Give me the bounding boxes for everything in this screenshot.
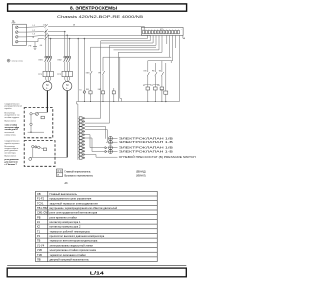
wire box2 bulb stub bbox=[30, 156, 33, 158]
ladder link dashes bbox=[145, 83, 159, 85]
svg-text:L3: L3 bbox=[33, 34, 36, 36]
svg-text:Т1: Т1 bbox=[37, 229, 41, 233]
wire box2 to sensor bbox=[40, 148, 43, 149]
wire drop B1 bbox=[64, 32, 66, 57]
thermal relay TR2 bbox=[62, 71, 72, 76]
svg-text:PE: PE bbox=[29, 46, 32, 48]
svg-text:К2: К2 bbox=[37, 225, 41, 229]
svg-text:внутренние термопредохранители: внутренние термопредохранители обмоток д… bbox=[50, 206, 118, 210]
svg-text:К1: К1 bbox=[79, 89, 81, 91]
dashed enclosure box 1 bbox=[24, 108, 53, 138]
svg-text:ЭЛЕКТРОКЛАПАН 1-В: ЭЛЕКТРОКЛАПАН 1-В bbox=[119, 141, 174, 144]
svg-text:Chassis 420/N2-BOP-RE 4000/N5: Chassis 420/N2-BOP-RE 4000/N5 bbox=[57, 15, 143, 19]
wire inside box1 top bbox=[39, 111, 48, 113]
XT1 terminals bbox=[143, 30, 180, 33]
wire KA2 to bus bbox=[154, 90, 156, 102]
wire run y57.2 bbox=[103, 56, 171, 58]
wire pass vertical p2 bbox=[85, 45, 110, 123]
defrost heater symbol box1 bbox=[41, 116, 44, 119]
svg-text:коробка: коробка bbox=[5, 108, 13, 110]
svg-text:РВ: РВ bbox=[37, 215, 41, 219]
footer box bbox=[7, 268, 186, 277]
svg-text:Главный переключатель: Главный переключатель bbox=[65, 171, 92, 174]
terminal circle box1 b bbox=[30, 123, 32, 125]
wire drop B3 bbox=[69, 39, 71, 57]
wire M2 lead down bbox=[66, 91, 68, 158]
node branch B tap 2 bbox=[67, 35, 68, 36]
bulb symbol box2 bbox=[29, 158, 32, 161]
svg-text:ОГНЕВОЙ ПРЕССОСТАТ (В) PRESSUR: ОГНЕВОЙ ПРЕССОСТАТ (В) PRESSURE SWITCH bbox=[119, 156, 196, 159]
mini legend box bbox=[57, 169, 63, 177]
svg-text:ЭЛЕКТРОКЛАПАН 1/В: ЭЛЕКТРОКЛАПАН 1/В bbox=[119, 147, 174, 150]
svg-text:контактор компрессора 1: контактор компрессора 1 bbox=[50, 220, 81, 224]
svg-text:термостат рабочей температуры: термостат рабочей температуры bbox=[50, 229, 90, 233]
coil KA1 rect bbox=[146, 87, 150, 90]
node v2 tap bbox=[84, 38, 85, 39]
svg-text:КМ1: КМ1 bbox=[39, 60, 44, 62]
coil KM1 rect bbox=[89, 91, 92, 94]
svg-text:У1-У4: У1-У4 bbox=[37, 243, 45, 247]
terminal circle box2 a bbox=[32, 145, 34, 147]
terminal column XT2 bus bbox=[77, 104, 79, 160]
node branch A tap 2 bbox=[48, 35, 49, 36]
coil KA3 rect bbox=[160, 87, 164, 90]
wire run y40.8 to strip bbox=[101, 40, 151, 42]
wire L2 bbox=[26, 31, 44, 33]
svg-text:реле времени оттайки: реле времени оттайки bbox=[50, 215, 78, 219]
XT2 stubs left bbox=[78, 118, 79, 158]
node box2 exit junction bbox=[55, 157, 56, 158]
wire row2 bbox=[48, 31, 65, 33]
wire strip drop x172.6 bbox=[171, 35, 172, 60]
svg-text:электроклапаны жидкостной лини: электроклапаны жидкостной линии bbox=[50, 243, 94, 247]
wire v2 coil feed bbox=[83, 39, 85, 91]
svg-text:(SB-M-Д): (SB-M-Д) bbox=[136, 172, 146, 174]
svg-text:Т1В: Т1В bbox=[37, 253, 42, 257]
svg-text:ТВ: ТВ bbox=[37, 239, 41, 243]
svg-text:К1: К1 bbox=[37, 220, 41, 224]
strip numbering band bbox=[143, 28, 182, 30]
wire drop A1 bbox=[45, 32, 47, 57]
svg-text:вентилятора: вентилятора bbox=[5, 152, 17, 154]
svg-text:ТВ1-ТВ2: ТВ1-ТВ2 bbox=[37, 206, 48, 210]
wire coil KM1 to bus bbox=[90, 94, 92, 102]
wire run y52.3 to strip bbox=[118, 35, 162, 52]
contact blade r1 bbox=[147, 72, 149, 76]
motor M2 bbox=[63, 81, 72, 90]
svg-text:термостат окончания оттайки: термостат окончания оттайки bbox=[50, 253, 87, 257]
contact blade r2 bbox=[155, 72, 157, 76]
wire pass vertical p4 bbox=[120, 57, 122, 101]
svg-text:1L1: 1L1 bbox=[43, 24, 46, 26]
svg-text:Главный выключатель: Главный выключатель bbox=[50, 192, 78, 196]
terminal X0:3 bbox=[15, 36, 18, 39]
wire strip right stub arrow bbox=[182, 35, 184, 38]
svg-text:К3: К3 bbox=[151, 85, 153, 87]
title box bbox=[8, 4, 187, 11]
wire strip stub x166 bbox=[166, 35, 168, 44]
valve Y3 symbol bbox=[105, 147, 107, 149]
wire run y49.9 to strip bbox=[114, 35, 160, 50]
nameplate symbol bbox=[7, 59, 10, 62]
wire L3 bbox=[26, 35, 44, 37]
terminal X0:4 bbox=[15, 40, 18, 43]
svg-text:(УВ-М-Л): (УВ-М-Л) bbox=[136, 175, 146, 177]
wire v3 contact branch bbox=[90, 47, 92, 91]
mini legend text row1 bbox=[65, 171, 146, 185]
wire long vertical v1 bbox=[77, 39, 79, 102]
svg-text:АХ.: АХ. bbox=[65, 182, 69, 185]
svg-text:СМ1-СМ2: СМ1-СМ2 bbox=[37, 211, 49, 215]
wire drop A2 bbox=[47, 35, 49, 56]
terminal circle box1 a bbox=[30, 113, 32, 115]
node branch B tap 1 bbox=[64, 31, 65, 32]
svg-text:оттайки поддона: оттайки поддона bbox=[5, 116, 21, 119]
coil timer rect bbox=[164, 91, 168, 94]
svg-text:ТР2: ТР2 bbox=[57, 74, 62, 76]
svg-text:L2: L2 bbox=[33, 30, 36, 32]
XT2 terminal circles bbox=[83, 117, 85, 158]
svg-text:дверной концевой выключатель: дверной концевой выключатель bbox=[50, 258, 90, 262]
wire v4 contact branch bbox=[102, 57, 104, 91]
wire box1 bottom bbox=[28, 131, 44, 133]
svg-text:М: М bbox=[46, 83, 48, 87]
node box1 junction bbox=[30, 132, 31, 133]
svg-text:схемы блока: схемы блока bbox=[5, 134, 17, 136]
svg-text:Выполняется: Выполняется bbox=[5, 155, 17, 157]
wire box2 vertical bbox=[32, 148, 34, 158]
valve Y2 symbol bbox=[109, 140, 113, 144]
wire KM2 to relay bbox=[65, 62, 70, 72]
coil KA2 rect bbox=[154, 87, 158, 90]
node branch A tap 1 bbox=[45, 31, 46, 32]
wire row1 to strip bbox=[48, 26, 144, 30]
svg-text:ТМ: ТМ bbox=[160, 89, 163, 91]
thermal relay TR1 bbox=[43, 71, 53, 76]
node bus junction bbox=[165, 101, 166, 102]
wire box2 link bbox=[34, 146, 38, 148]
wire run y47.2 bbox=[91, 46, 157, 48]
svg-text:М: М bbox=[66, 83, 68, 87]
svg-text:У1В: У1В bbox=[37, 248, 42, 252]
wire TR1 to motor M1 bbox=[46, 77, 51, 82]
wire M1 lead down bbox=[46, 91, 48, 113]
wire KA3 to bus bbox=[161, 90, 163, 102]
svg-text:L/14: L/14 bbox=[90, 270, 105, 275]
XT2 terminals bbox=[79, 117, 82, 159]
terminal strip XT1 bbox=[141, 27, 183, 35]
valve label texts bbox=[119, 137, 196, 159]
switch Q1 blade pole4 bbox=[44, 36, 48, 39]
svg-text:ТСУ1: ТСУ1 bbox=[37, 201, 44, 205]
svg-text:3~: 3~ bbox=[46, 88, 49, 90]
wire TR2 to motor M2 bbox=[65, 77, 70, 82]
svg-text:прессостат высокого давления к: прессостат высокого давления компрессора bbox=[50, 235, 105, 238]
wire coil K3 stubs bbox=[113, 88, 115, 102]
PE flag symbol top-left bbox=[12, 21, 14, 23]
wire strip drop x175.5 bbox=[175, 35, 177, 48]
svg-text:3~: 3~ bbox=[66, 88, 69, 90]
wire coil K1 to bus bbox=[83, 93, 85, 101]
terminal block X0 bbox=[13, 24, 27, 45]
terminal X0:1 bbox=[15, 26, 18, 29]
wire valve row 4 bbox=[85, 138, 105, 152]
wire KM1 to relay bbox=[46, 62, 51, 72]
svg-text:электроклапан оттайки горячим: электроклапан оттайки горячим газом bbox=[50, 248, 97, 252]
ground PE bbox=[33, 47, 37, 50]
valve Y4 symbol bbox=[105, 150, 107, 152]
coil KM2 rect bbox=[101, 91, 104, 94]
node branch B tap 3 bbox=[69, 38, 70, 39]
sensor box2 bbox=[43, 148, 46, 151]
wire valve row3 tail bbox=[113, 147, 118, 149]
wire row4 bus bbox=[48, 38, 78, 40]
wire ladder r1 bbox=[147, 63, 149, 87]
contact blade r3 bbox=[161, 72, 163, 76]
svg-text:коробка агрегата: коробка агрегата bbox=[5, 143, 21, 145]
wire run y45.3 to strip bbox=[110, 35, 157, 45]
wire PE drop bbox=[34, 42, 36, 47]
wire pass vertical p3 bbox=[117, 52, 119, 101]
svg-text:Выполняется: Выполняется bbox=[5, 121, 17, 123]
wire run y43 to strip bbox=[101, 35, 153, 43]
wire valve row4 tail bbox=[113, 151, 118, 153]
wire strip drop right frame bbox=[179, 35, 181, 101]
node bus dots bbox=[84, 101, 162, 102]
wire valve row 2 bbox=[85, 130, 108, 143]
svg-text:ТВ: ТВ bbox=[159, 71, 162, 73]
svg-text:контактор компрессора 2: контактор компрессора 2 bbox=[50, 225, 81, 229]
node row4 v1 tap bbox=[78, 38, 79, 39]
svg-text:c V больше 7: c V больше 7 bbox=[5, 164, 17, 166]
svg-text:защитный термостат электродвиг: защитный термостат электродвигателя bbox=[50, 201, 99, 205]
contactor KM1 contacts bbox=[45, 56, 52, 62]
legend table text bbox=[37, 192, 118, 262]
contact blade v3 bbox=[90, 71, 92, 75]
svg-text:F1-F2: F1-F2 bbox=[37, 197, 45, 201]
wire L1 bbox=[26, 26, 44, 29]
svg-text:реле электродвигателей вентиля: реле электродвигателей вентиляторов bbox=[50, 211, 98, 215]
annotation group 1 left of box1 bbox=[5, 103, 22, 136]
svg-text:04: 04 bbox=[40, 45, 43, 47]
coil K1 bbox=[83, 91, 86, 94]
svg-text:КМ: КМ bbox=[144, 71, 147, 73]
wire pressure switch row bbox=[85, 155, 118, 158]
wire stub strip 150 bbox=[149, 35, 151, 40]
wire valve row 3 bbox=[85, 135, 105, 148]
svg-text:номер схемы: номер схемы bbox=[11, 61, 23, 63]
wire coil KM2 to bus bbox=[102, 94, 104, 102]
svg-text:08: 08 bbox=[73, 24, 75, 26]
svg-text:К2: К2 bbox=[143, 85, 145, 87]
svg-text:Р1: Р1 bbox=[37, 234, 41, 238]
svg-text:ПВ: ПВ bbox=[37, 258, 41, 262]
dashed enclosure box 2 bbox=[24, 141, 55, 167]
switch Q1 blade pole2 bbox=[44, 29, 48, 32]
wire bus left tail bbox=[77, 102, 78, 105]
svg-text:КМ: КМ bbox=[98, 89, 101, 91]
coil K3 rect bbox=[112, 91, 115, 94]
svg-text:N: N bbox=[33, 37, 35, 39]
wire valve row 1 bbox=[85, 126, 106, 138]
wire timer stubs bbox=[165, 63, 167, 102]
annotation group 1 left of box2 bbox=[5, 141, 21, 166]
svg-text:предохранители цепи управления: предохранители цепи управления bbox=[50, 198, 92, 201]
legend table bbox=[36, 191, 158, 261]
svg-text:8. ЭЛЕКТРОСХЕМЫ: 8. ЭЛЕКТРОСХЕМЫ bbox=[70, 6, 117, 12]
terminal circle box2 b bbox=[38, 146, 40, 148]
wire strip drop x169.7 bbox=[169, 35, 171, 57]
wire ladder r2 bbox=[154, 63, 156, 87]
separator rule bbox=[7, 265, 186, 267]
svg-text:РВ: РВ bbox=[98, 73, 101, 75]
wire valve row2 tail bbox=[113, 141, 118, 143]
svg-text:ЭЛЕКТРОКЛАПАН 1/В: ЭЛЕКТРОКЛАПАН 1/В bbox=[119, 137, 174, 140]
wire ladder r3 bbox=[161, 61, 163, 87]
svg-text:СВ: СВ bbox=[37, 192, 41, 196]
wire row3 bus bbox=[48, 35, 150, 36]
valve Y1 symbol bbox=[109, 136, 113, 140]
svg-text:КМ2: КМ2 bbox=[58, 60, 63, 62]
wire valve row1 tail bbox=[113, 137, 118, 139]
wire drop B2 bbox=[66, 35, 68, 56]
terminal X0:2 bbox=[15, 31, 18, 34]
svg-text:термостат вентиляторов конденс: термостат вентиляторов конденсатора bbox=[50, 240, 98, 243]
wire box1 vertical bbox=[30, 115, 32, 123]
wire N bbox=[26, 39, 44, 42]
node branch A tap 3 bbox=[50, 38, 51, 39]
svg-text:ХТ1: ХТ1 bbox=[160, 29, 163, 31]
svg-text:КМ: КМ bbox=[86, 89, 89, 91]
switch Q1 blade pole3 bbox=[44, 33, 48, 36]
wire drop A3 bbox=[50, 39, 52, 57]
svg-text:только для НТ: только для НТ bbox=[5, 129, 19, 131]
svg-text:ТР1: ТР1 bbox=[38, 74, 43, 76]
wire box2 exit bbox=[33, 156, 67, 158]
svg-text:Вспомогат. переключатель: Вспомогат. переключатель bbox=[65, 175, 94, 177]
svg-text:РВ: РВ bbox=[152, 71, 155, 73]
contact blade v4 bbox=[103, 71, 105, 75]
contactor KM2 contacts bbox=[64, 56, 71, 62]
wire pass vertical p1 bbox=[85, 41, 101, 118]
motor M1 bbox=[43, 81, 52, 90]
wire box1 mid bbox=[32, 113, 35, 115]
svg-text:ЭЛЕКТРОКЛАПАН 1-В: ЭЛЕКТРОКЛАПАН 1-В bbox=[119, 150, 174, 153]
wire box1 lower bbox=[30, 126, 32, 133]
wire run y38.6 to strip bbox=[78, 35, 147, 38]
wire bottom bus bbox=[77, 101, 180, 103]
switch Q1 blade pole1 bbox=[44, 24, 48, 27]
fan motor symbol box1 bbox=[35, 112, 38, 115]
wire right loop bbox=[148, 61, 171, 63]
XT2 stubs right bbox=[82, 118, 85, 158]
svg-text:КМ1: КМ1 bbox=[86, 73, 90, 75]
switch Q1 link bbox=[45, 24, 47, 41]
wire KA1 to bus bbox=[147, 90, 149, 102]
